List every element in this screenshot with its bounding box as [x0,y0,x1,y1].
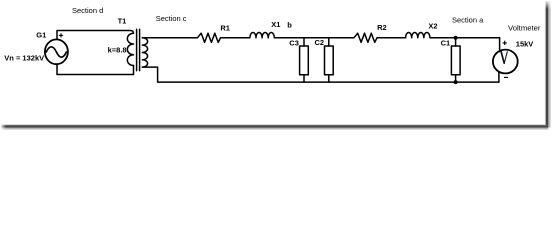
svg-text:Vn = 132kV: Vn = 132kV [4,54,44,63]
svg-text:C3: C3 [289,38,299,47]
svg-text:R1: R1 [220,23,230,32]
svg-text:Section d: Section d [72,6,103,15]
svg-text:b: b [287,20,292,29]
svg-text:C1: C1 [441,39,451,48]
svg-text:k=8.8: k=8.8 [108,45,127,54]
svg-text:X2: X2 [428,22,437,31]
svg-text:Section a: Section a [452,15,484,24]
svg-text:T1: T1 [118,16,127,25]
svg-text:Voltmeter: Voltmeter [508,24,541,33]
svg-text:Section c: Section c [156,14,187,23]
svg-text:G1: G1 [36,30,46,39]
svg-text:R2: R2 [377,23,387,32]
svg-text:X1: X1 [271,20,280,29]
svg-text:15kV: 15kV [516,39,534,48]
svg-text:C2: C2 [315,38,325,47]
